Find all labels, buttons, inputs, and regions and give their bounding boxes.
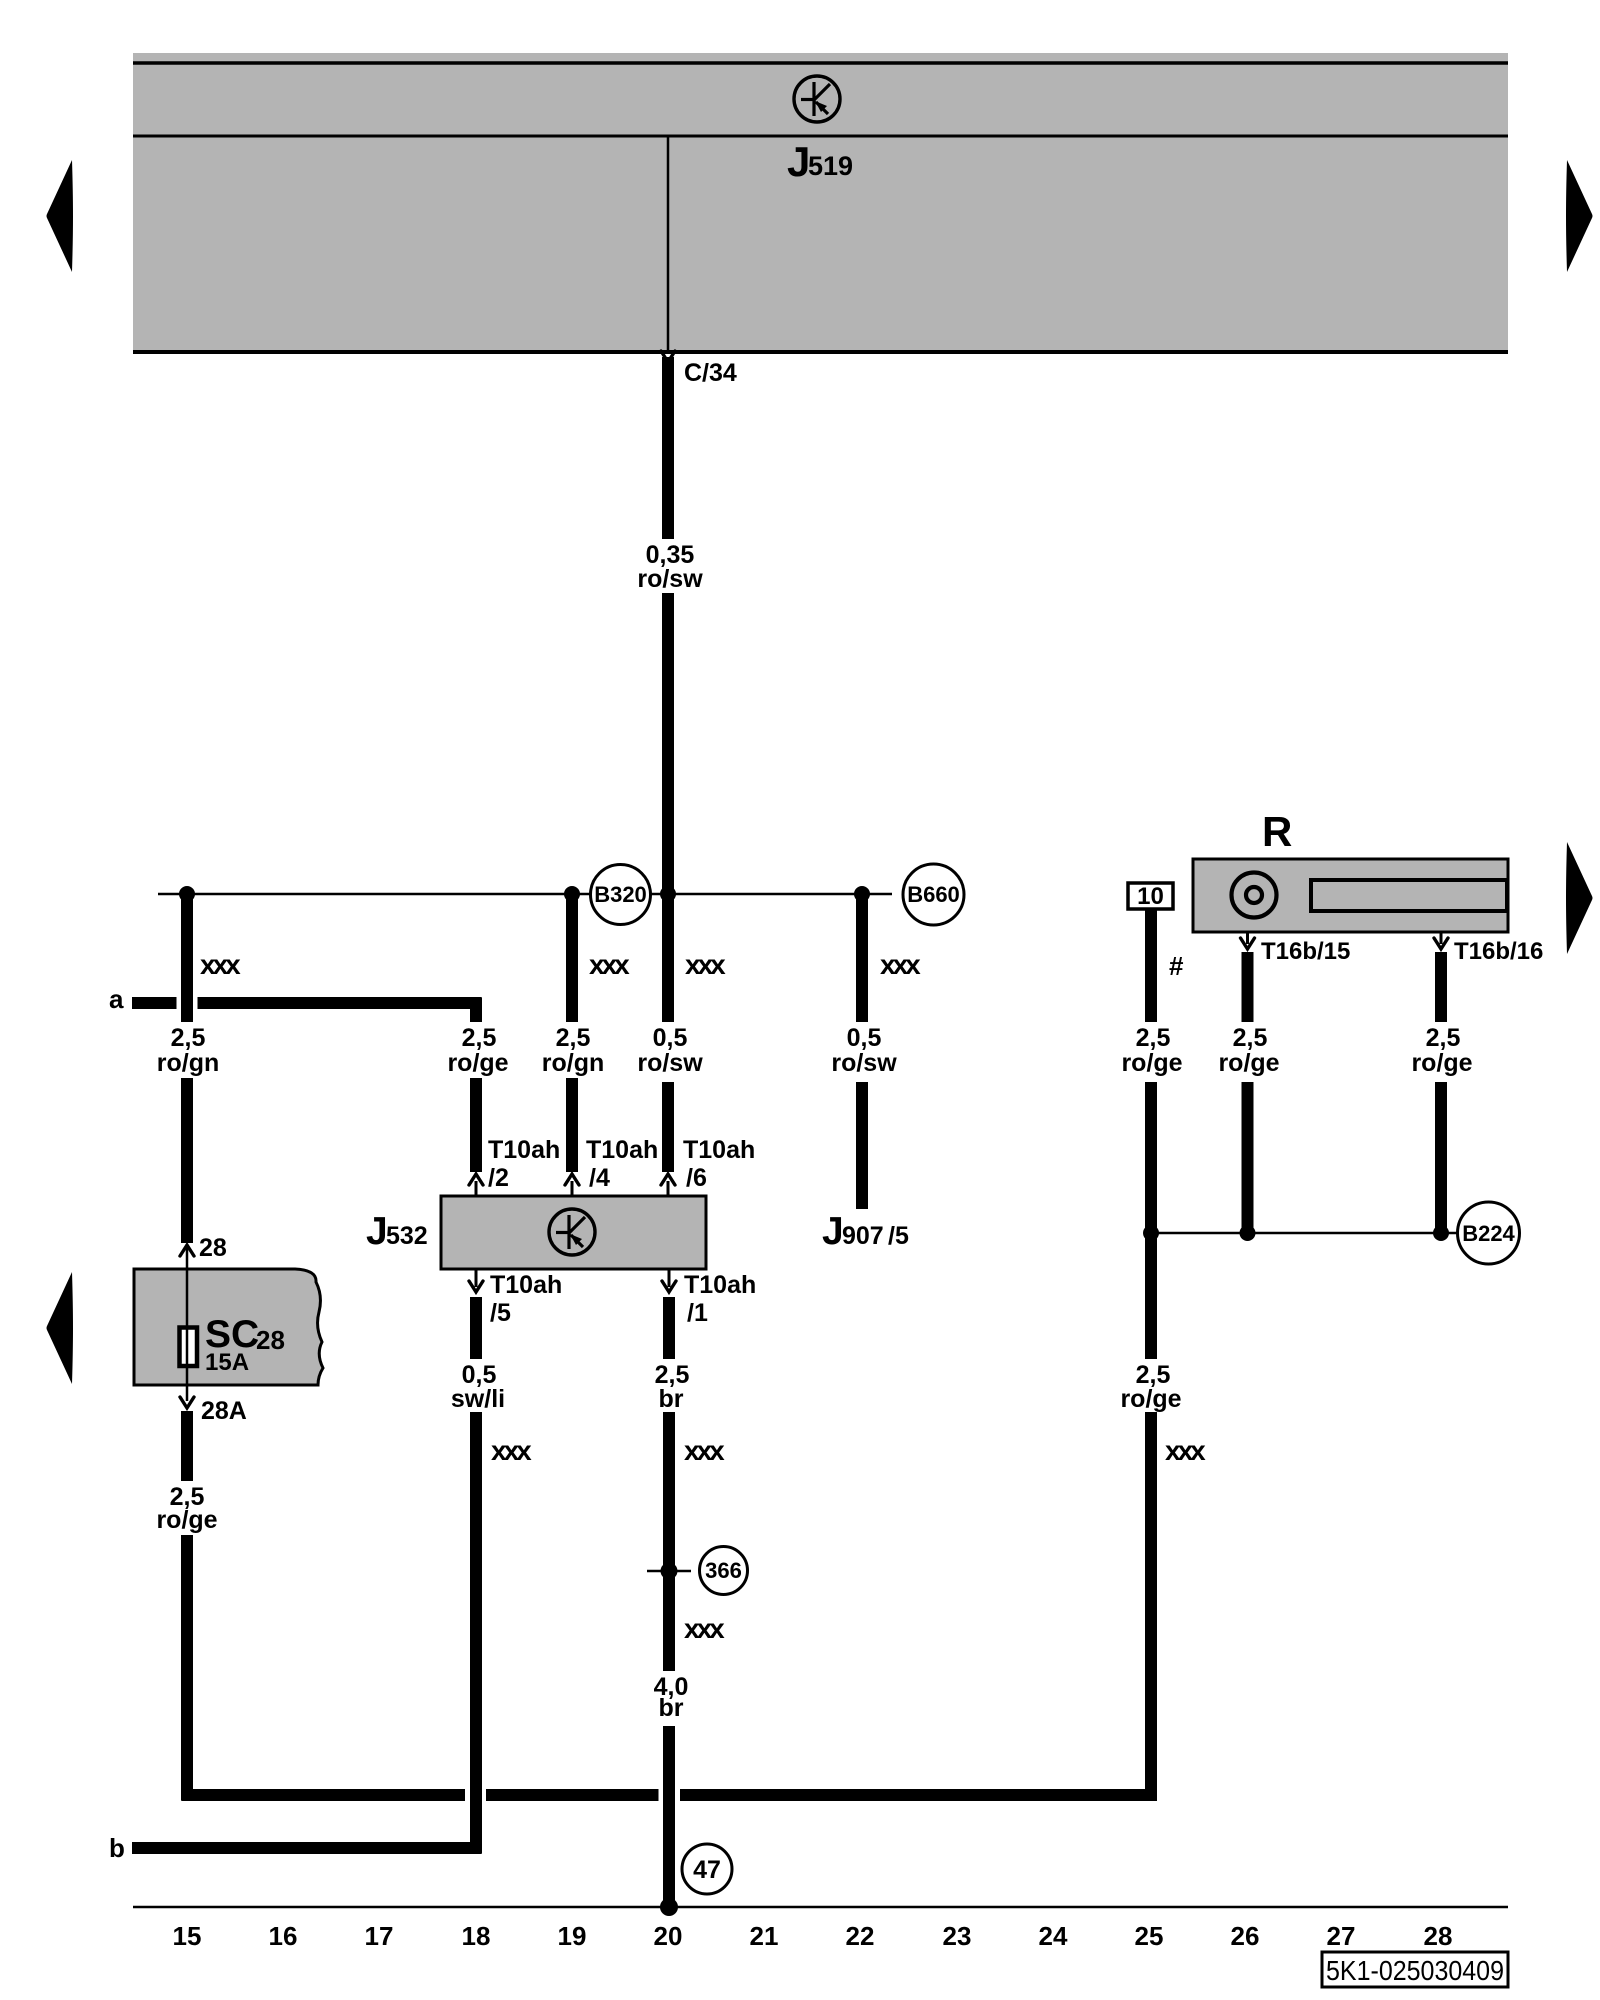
wire 2,5 br (upper segment)	[663, 1297, 675, 1359]
svg-text:2,5: 2,5	[1426, 1024, 1461, 1052]
label J532	[366, 1210, 428, 1253]
wire 2,5 ro/ge T16b/16 (lower segment)	[1435, 1082, 1447, 1233]
bottom rail right segment	[486, 1789, 1157, 1801]
connector T16b/16	[1434, 932, 1543, 965]
svg-text:J: J	[822, 1210, 844, 1253]
svg-text:xxx: xxx	[200, 949, 241, 980]
diagram number box 5K1-025030409	[1322, 1952, 1508, 1987]
svg-text:21: 21	[750, 1921, 779, 1951]
svg-text:26: 26	[1231, 1921, 1260, 1951]
label 2,5 ro/ge T16b/15 wire	[1218, 1024, 1279, 1077]
node line between B320 and B660	[158, 893, 892, 896]
connector pin C/34	[661, 351, 737, 387]
node B224	[1458, 1202, 1520, 1264]
svg-text:#: #	[1169, 951, 1184, 981]
svg-text:/2: /2	[488, 1164, 509, 1192]
svg-text:T10ah: T10ah	[490, 1271, 562, 1299]
svg-text:br: br	[659, 1694, 684, 1722]
svg-text:xxx: xxx	[684, 1613, 725, 1644]
connector T16b/15	[1241, 932, 1351, 965]
svg-text:/6: /6	[686, 1164, 707, 1192]
svg-text:xxx: xxx	[589, 949, 630, 980]
svg-text:19: 19	[558, 1921, 587, 1951]
svg-text:C/34: C/34	[684, 359, 737, 387]
wire 2,5 br (segment to node 366)	[663, 1412, 675, 1671]
wire 0,5 ro/sw B660 (upper segment)	[856, 894, 868, 1022]
svg-text:10: 10	[1137, 883, 1164, 910]
svg-text:25: 25	[1135, 1921, 1164, 1951]
svg-text:24: 24	[1039, 1921, 1068, 1951]
wire to J907/5 (lower segment)	[856, 1082, 868, 1209]
node 366 circle	[700, 1547, 748, 1595]
svg-text:B320: B320	[594, 882, 647, 907]
fuse line through symbol	[186, 1327, 189, 1366]
svg-text:/5: /5	[888, 1222, 909, 1250]
svg-text:B660: B660	[907, 882, 960, 907]
svg-text:xxx: xxx	[685, 949, 726, 980]
svg-text:ro/ge: ro/ge	[447, 1049, 508, 1077]
svg-text:ro/gn: ro/gn	[542, 1049, 605, 1077]
svg-text:T10ah: T10ah	[684, 1271, 756, 1299]
connector T10ah/5	[469, 1269, 562, 1327]
svg-text:ro/ge: ro/ge	[1121, 1049, 1182, 1077]
svg-text:ro/sw: ro/sw	[637, 565, 703, 593]
wire main (lower segment to T10ah/6)	[662, 1082, 674, 1172]
connector 28A	[180, 1397, 247, 1425]
wire 4,0 br (segment to ground)	[663, 1726, 675, 1907]
wire left into fuse row (lower segment)	[181, 1078, 193, 1243]
svg-text:T10ah: T10ah	[683, 1136, 755, 1164]
svg-text:28: 28	[199, 1234, 227, 1262]
svg-text:b: b	[109, 1833, 125, 1863]
svg-text:ro/ge: ro/ge	[1120, 1385, 1181, 1413]
svg-text:22: 22	[846, 1921, 875, 1951]
label 2,5 br	[655, 1361, 690, 1413]
label 2,5 ro/ge terminal 10 wire	[1121, 1024, 1182, 1077]
page arrow top left	[47, 160, 74, 272]
junction dot B660 wire	[854, 886, 870, 902]
wire 2,5 ro/gn left (upper segment)	[181, 894, 193, 1022]
wire through fuse (thin)	[186, 1248, 189, 1401]
label 2,5 ro/ge right lower	[1120, 1361, 1181, 1413]
svg-text:5K1-025030409: 5K1-025030409	[1326, 1955, 1504, 1986]
wire 2,5 ro/ge T16b/15 (upper segment)	[1242, 952, 1254, 1022]
svg-text:ro/gn: ro/gn	[157, 1049, 220, 1077]
node 366 junction dot	[661, 1563, 678, 1580]
wire 2,5 ro/ge from terminal 10 (upper segment)	[1145, 909, 1157, 1022]
wire a (lower segment to T10ah/2)	[470, 1078, 482, 1172]
svg-text:a: a	[109, 984, 124, 1014]
fuse holder SC28 box	[134, 1269, 323, 1385]
wire 2,5 ro/ge T16b/16 (upper segment)	[1435, 952, 1447, 1022]
wire 2,5 ro/ge terminal 10 (segment to B224 line)	[1145, 1082, 1157, 1359]
svg-text:2,5: 2,5	[556, 1024, 591, 1052]
wire a horizontal	[132, 997, 482, 1009]
label 2,5 ro/ge (a wire)	[447, 1024, 508, 1077]
svg-text:0,5: 0,5	[653, 1024, 688, 1052]
svg-text:15A: 15A	[205, 1349, 249, 1376]
ground node 47	[682, 1844, 732, 1894]
fuse SC28 symbol	[180, 1328, 198, 1367]
wire B320 (lower segment to T10ah/4)	[566, 1078, 578, 1172]
label 0,35 ro/sw	[637, 541, 703, 593]
svg-text:18: 18	[462, 1921, 491, 1951]
radio R box	[1193, 859, 1508, 932]
wire b horizontal	[132, 1842, 482, 1854]
label J519	[787, 138, 853, 185]
svg-text:0,5: 0,5	[847, 1024, 882, 1052]
connector T10ah/4	[565, 1136, 658, 1196]
label 0,5 ro/sw (main wire)	[637, 1024, 703, 1077]
wire a elbow down	[470, 998, 482, 1023]
svg-text:T16b/15: T16b/15	[1261, 938, 1350, 965]
svg-text:R: R	[1262, 808, 1292, 855]
wire inside J519 to pin C/34	[667, 136, 670, 350]
wire 2,5 ro/gn B320 (lower segment)	[566, 894, 578, 1022]
label 2,5 ro/gn (B320 wire)	[542, 1024, 605, 1077]
wire 2,5 ro/ge below fuse (upper segment)	[181, 1411, 193, 1481]
wire 0,35 ro/sw (lower segment to node line)	[662, 593, 674, 1022]
page arrow right of R	[1566, 842, 1593, 954]
svg-text:ro/ge: ro/ge	[1218, 1049, 1279, 1077]
svg-text:sw/li: sw/li	[451, 1385, 505, 1413]
connector T10ah/6	[661, 1136, 755, 1196]
label 0,5 ro/sw (B660 wire)	[831, 1024, 897, 1077]
label SC28 15A	[205, 1313, 285, 1376]
wire 0,35 ro/sw from C/34 (upper segment)	[662, 357, 674, 539]
svg-text:T10ah: T10ah	[488, 1136, 560, 1164]
label 4,0 br	[654, 1673, 689, 1722]
svg-text:907: 907	[842, 1222, 884, 1250]
svg-text:28: 28	[1424, 1921, 1453, 1951]
svg-text:xxx: xxx	[491, 1435, 532, 1466]
ground junction dot	[660, 1898, 678, 1916]
svg-text:/1: /1	[687, 1299, 708, 1327]
svg-text:15: 15	[173, 1921, 202, 1951]
svg-text:16: 16	[269, 1921, 298, 1951]
svg-text:J: J	[366, 1210, 388, 1253]
svg-text:ro/sw: ro/sw	[637, 1049, 703, 1077]
label 2,5 ro/ge T16b/16 wire	[1411, 1024, 1472, 1077]
svg-text:xxx: xxx	[684, 1435, 725, 1466]
svg-text:532: 532	[386, 1222, 428, 1250]
svg-text:B224: B224	[1462, 1221, 1515, 1246]
svg-text:47: 47	[693, 1856, 721, 1884]
svg-text:23: 23	[943, 1921, 972, 1951]
svg-text:ro/ge: ro/ge	[1411, 1049, 1472, 1077]
junction dot main wire	[660, 886, 676, 902]
svg-text:519: 519	[808, 151, 853, 181]
svg-text:28: 28	[256, 1325, 285, 1355]
junction dot B320 wire	[564, 886, 580, 902]
bottom rail left segment	[182, 1789, 466, 1801]
control unit J519 box	[133, 53, 1508, 352]
wire 0,5 sw/li (upper segment)	[470, 1297, 482, 1359]
wire 2,5 ro/ge fuse (long segment to bottom rail)	[181, 1535, 193, 1801]
svg-text:/4: /4	[589, 1164, 610, 1192]
junction dot T16b/15 wire	[1240, 1225, 1256, 1241]
node line to B224	[1151, 1232, 1457, 1235]
svg-text:J: J	[787, 138, 810, 185]
grid numbers 15-28	[173, 1921, 1453, 1951]
wire 2,5 ro/ge T16b/15 (lower segment)	[1242, 1082, 1254, 1233]
node B660	[903, 864, 964, 925]
label J907/5	[822, 1210, 909, 1253]
svg-text:2,5: 2,5	[1233, 1024, 1268, 1052]
svg-text:2,5: 2,5	[1136, 1024, 1171, 1052]
svg-text:ro/ge: ro/ge	[156, 1506, 217, 1534]
junction dot T16b/16 wire	[1433, 1225, 1449, 1241]
svg-text:ro/sw: ro/sw	[831, 1049, 897, 1077]
radio R knob symbol	[1232, 873, 1277, 918]
svg-text:2,5: 2,5	[171, 1024, 206, 1052]
svg-text:br: br	[659, 1385, 684, 1413]
svg-text:T16b/16: T16b/16	[1454, 938, 1543, 965]
terminal 10 box	[1128, 883, 1173, 910]
connector 28	[180, 1234, 227, 1262]
electronics symbol in J519	[794, 76, 840, 122]
electronics symbol in J532	[549, 1209, 595, 1255]
label 2,5 ro/ge fuse wire	[156, 1483, 217, 1534]
label 0,5 sw/li	[451, 1361, 505, 1413]
svg-text:xxx: xxx	[880, 949, 921, 980]
node B320	[591, 865, 651, 925]
connector T10ah/1	[662, 1269, 756, 1327]
svg-text:27: 27	[1327, 1921, 1356, 1951]
svg-text:366: 366	[705, 1558, 742, 1583]
svg-text:/5: /5	[490, 1299, 511, 1327]
svg-text:20: 20	[654, 1921, 683, 1951]
page arrow mid left	[47, 1272, 74, 1384]
junction dot left wire	[179, 886, 195, 902]
control unit J532 box	[441, 1196, 706, 1269]
junction dot terminal 10 wire	[1143, 1225, 1159, 1241]
wire 0,5 sw/li (long segment to b line)	[470, 1412, 482, 1854]
svg-text:28A: 28A	[201, 1397, 247, 1425]
base line	[133, 1906, 1508, 1909]
node 366 tick	[647, 1570, 691, 1573]
connector T10ah/2	[469, 1136, 560, 1196]
svg-text:T10ah: T10ah	[586, 1136, 658, 1164]
svg-text:xxx: xxx	[1165, 1435, 1206, 1466]
wire 2,5 ro/ge right (long segment to bottom rail)	[1145, 1412, 1157, 1801]
radio R slot symbol	[1311, 880, 1507, 911]
svg-text:2,5: 2,5	[462, 1024, 497, 1052]
label 2,5 ro/gn left	[157, 1024, 220, 1077]
svg-text:17: 17	[365, 1921, 394, 1951]
page arrow top right	[1566, 160, 1593, 272]
